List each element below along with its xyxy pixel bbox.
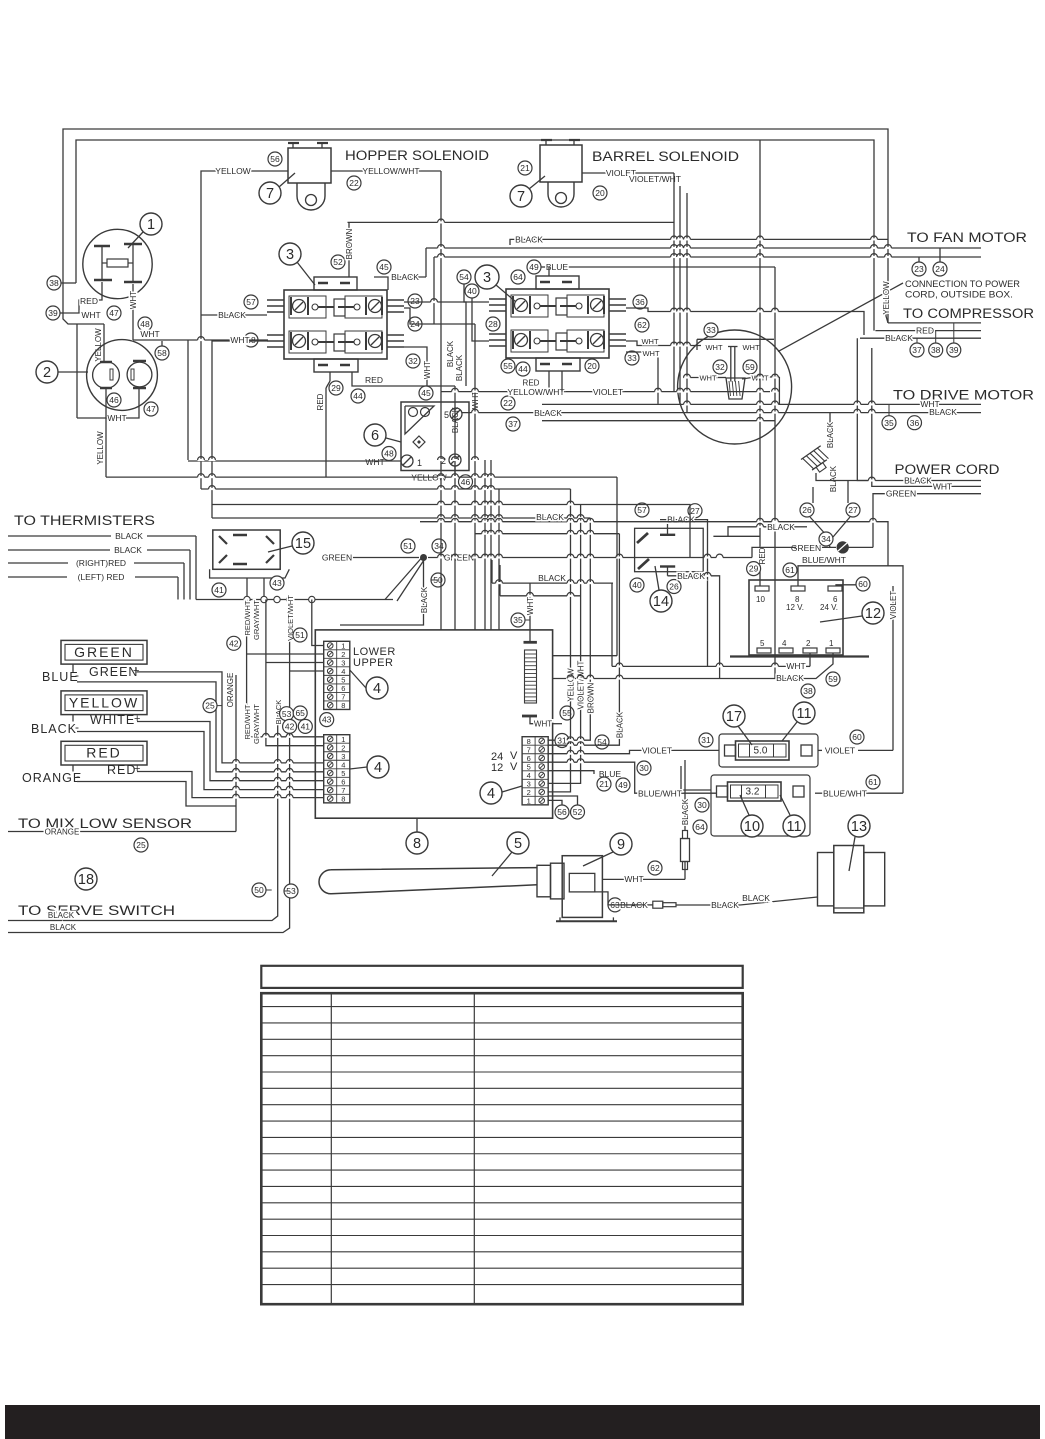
wires thermistor to junction (246, 578, 248, 600)
contactor K2 pin (489, 298, 506, 300)
motor base (560, 917, 613, 921)
svg-text:WHT: WHT (642, 349, 659, 358)
callout 11 F1 (793, 702, 815, 724)
circle 42 col (227, 636, 241, 650)
svg-text:44: 44 (518, 364, 528, 374)
wire wht P2 bottom (77, 389, 139, 418)
callout 3 K2 (475, 265, 499, 289)
svg-text:GREEN: GREEN (886, 489, 916, 499)
svg-text:48: 48 (140, 319, 150, 329)
callout 15 (292, 532, 314, 554)
callout 18 (75, 868, 97, 890)
plug P1 pins (94, 245, 110, 248)
hopper solenoid plunger (297, 183, 325, 210)
wire black K1 right (374, 277, 388, 290)
svg-text:6: 6 (371, 428, 379, 444)
wire top long horizontal y222 (348, 221, 675, 223)
wire lower bus under mixer (542, 420, 775, 422)
svg-text:2: 2 (806, 639, 811, 648)
wire compressor line1 (888, 322, 981, 324)
svg-text:BLACK: BLACK (31, 722, 77, 736)
svg-text:BLACK: BLACK (218, 310, 246, 320)
circle 22 K2 (501, 396, 515, 410)
svg-text:34: 34 (821, 534, 831, 544)
wire gray/wht col (266, 600, 324, 746)
wire wht to K1 (212, 340, 267, 342)
callout 1 (140, 213, 162, 235)
svg-text:RED: RED (758, 547, 767, 564)
svg-text:64: 64 (513, 272, 523, 282)
indicator lamp GREEN (61, 640, 147, 664)
circle 57 sw (635, 503, 649, 517)
circle 37 comp (910, 343, 924, 357)
svg-text:60: 60 (858, 579, 868, 589)
ground screw (837, 542, 848, 553)
circle 47 P1 (107, 306, 121, 320)
wire yellow/wht from hopper (331, 170, 366, 172)
svg-text:65: 65 (295, 708, 305, 718)
svg-text:BLACK: BLACK (455, 354, 464, 381)
component 6 diamond (413, 436, 425, 448)
svg-text:42: 42 (285, 721, 295, 731)
svg-text:RED: RED (107, 763, 136, 777)
fuse box outline 2 (681, 766, 711, 790)
wire fan motor bus 1 (426, 247, 981, 249)
callout 17 (723, 705, 745, 727)
circle 59 mixer (743, 360, 757, 374)
callout 12 (862, 602, 884, 624)
wire K2 out wht 1 (626, 341, 701, 346)
svg-text:VIOLET: VIOLET (889, 591, 898, 620)
circle 44 K2 (516, 362, 530, 376)
svg-text:BLACK: BLACK (885, 333, 913, 343)
svg-text:38: 38 (49, 278, 59, 288)
wire black from junction (340, 558, 424, 626)
circle 56 (268, 152, 282, 166)
terminal strip TS1 (324, 641, 350, 709)
wire compressor red (875, 330, 981, 332)
circle 50 g (431, 573, 445, 587)
svg-text:8: 8 (413, 836, 421, 852)
wire v441b (440, 392, 442, 630)
svg-text:32: 32 (408, 356, 418, 366)
svg-text:BLACK: BLACK (677, 571, 705, 581)
wire black serve col (8, 700, 278, 921)
strain relief power cord (829, 413, 831, 449)
circle 27 cord (846, 503, 860, 517)
circle 29 (329, 381, 343, 395)
wire blue K2 (541, 266, 548, 268)
svg-text:4: 4 (782, 639, 787, 648)
wire red coil K1 (329, 372, 331, 381)
svg-text:47: 47 (109, 308, 119, 318)
svg-text:30: 30 (697, 800, 707, 810)
circle 47 P2 (144, 402, 158, 416)
circle 26 cord (800, 503, 814, 517)
svg-text:38: 38 (803, 686, 813, 696)
callout 5 (507, 832, 529, 854)
svg-text:TO COMPRESSOR: TO COMPRESSOR (903, 306, 1034, 321)
wire red P1 (63, 282, 102, 313)
svg-text:24: 24 (935, 264, 945, 274)
circle 23 fan (912, 262, 926, 276)
svg-text:22: 22 (503, 398, 513, 408)
wire bus y533 (475, 533, 619, 535)
circle 36 drive (908, 416, 922, 430)
circle 58 (244, 333, 258, 347)
svg-text:53: 53 (282, 709, 292, 719)
junction bullet (309, 596, 315, 602)
callout 2 (36, 361, 58, 383)
wire v426 (425, 248, 427, 277)
svg-text:36: 36 (910, 418, 920, 428)
wire orange mix low (8, 831, 45, 833)
contactor K2 pole 1 (511, 295, 548, 317)
wire green ground (795, 546, 836, 548)
parts table (261, 993, 742, 1304)
wire y596 (499, 565, 501, 596)
barrel solenoid coil body (540, 145, 582, 182)
svg-text:VIOLET: VIOLET (642, 745, 672, 755)
circle 53 cl (280, 707, 294, 721)
svg-text:61: 61 (785, 565, 795, 575)
table row line (261, 1087, 742, 1089)
heater resistor on board (524, 641, 537, 644)
svg-text:WHT: WHT (526, 597, 535, 615)
circle 35 res (511, 613, 525, 627)
wire black to buzzer (676, 904, 740, 906)
callout 7 barrel (510, 185, 532, 207)
wire v441 (440, 171, 442, 392)
svg-text:GRAY/WHT: GRAY/WHT (252, 704, 261, 744)
table row line (261, 1104, 742, 1106)
svg-text:TO SERVE SWITCH: TO SERVE SWITCH (18, 903, 175, 918)
svg-text:BLACK: BLACK (929, 407, 957, 417)
svg-text:TO FAN MOTOR: TO FAN MOTOR (907, 230, 1027, 245)
wire blue- lead (77, 682, 324, 772)
circle 32 (406, 354, 420, 368)
callout 11 F2 (783, 815, 805, 837)
svg-text:58: 58 (157, 348, 167, 358)
svg-text:60: 60 (852, 732, 862, 742)
svg-text:37: 37 (508, 419, 518, 429)
svg-text:59: 59 (745, 362, 755, 372)
wire blue ts3 (547, 771, 594, 774)
wire green+ lead (72, 664, 74, 672)
circle 39 (46, 306, 60, 320)
contactor K1 pin (267, 311, 284, 313)
svg-text:46: 46 (109, 395, 119, 405)
svg-text:VIOLET: VIOLET (825, 746, 855, 756)
svg-text:5.0: 5.0 (754, 746, 768, 757)
plug P2 body (87, 340, 158, 411)
svg-text:5: 5 (444, 410, 449, 420)
svg-text:25: 25 (136, 840, 146, 850)
wire black top right (510, 239, 888, 245)
svg-text:52: 52 (573, 807, 583, 817)
circle 42 cl (283, 719, 297, 733)
circle 21 (518, 161, 532, 175)
svg-text:23: 23 (914, 264, 924, 274)
svg-text:BLACK: BLACK (826, 421, 835, 448)
svg-text:VIOLET/WHT: VIOLET/WHT (577, 660, 586, 709)
component 6 board (401, 402, 469, 471)
callout 7 hopper (259, 182, 281, 204)
svg-text:BLACK: BLACK (50, 923, 77, 932)
svg-text:+: + (133, 665, 139, 677)
svg-text:45: 45 (421, 388, 431, 398)
hopper solenoid coil body (288, 148, 331, 183)
table columns (330, 993, 332, 1304)
svg-text:WHT: WHT (107, 413, 126, 423)
wire violet from F1 (818, 749, 822, 751)
wire bus y489 (201, 488, 571, 490)
thermistor block body (213, 530, 280, 569)
wire blue/wht from F2 (815, 792, 824, 794)
wire right vertical to power wht (872, 348, 877, 486)
wire v612 (611, 583, 613, 666)
svg-text:WHT: WHT (534, 720, 552, 729)
callout 4 TS3 (480, 782, 502, 804)
svg-text:BLACK: BLACK (767, 522, 795, 532)
wire K2 out to compressor (626, 308, 864, 335)
svg-text:BLACK: BLACK (391, 272, 419, 282)
circle 61 t (783, 563, 797, 577)
svg-text:48: 48 (384, 449, 394, 459)
wire v617 (616, 477, 618, 656)
svg-text:39: 39 (949, 345, 959, 355)
table row line (261, 1202, 742, 1204)
circle 25 mix (134, 838, 148, 852)
svg-text:-: - (75, 668, 79, 682)
circle 60 F1 (850, 730, 864, 744)
wire orange- lead (77, 782, 236, 807)
junction bus (196, 599, 393, 601)
circle 60 t (856, 577, 870, 591)
component 6 screw 5 (450, 408, 462, 420)
wire right vertical to power black (857, 338, 872, 480)
circle 27 sw (688, 504, 702, 518)
wire second left vertical (211, 340, 213, 518)
wire red+ lead (72, 765, 74, 772)
svg-text:51: 51 (295, 630, 305, 640)
wire yellow col (547, 489, 570, 792)
wire red to transformer (759, 140, 761, 586)
svg-text:15: 15 (295, 536, 311, 552)
circle 36 (633, 295, 647, 309)
svg-text:3: 3 (483, 270, 491, 286)
circle 54 (457, 270, 471, 284)
circle 43 th (270, 576, 284, 590)
svg-text:12: 12 (865, 606, 881, 622)
barrel solenoid plunger (548, 182, 574, 207)
wire bus y504 (212, 505, 690, 558)
contactor K2 pin (489, 339, 506, 341)
svg-text:43: 43 (322, 715, 332, 725)
contactor K1 pin (267, 299, 284, 301)
callout 6 (364, 424, 386, 446)
circle 55 b (560, 706, 574, 720)
circle 28 (486, 317, 500, 331)
table row line (261, 1153, 742, 1155)
wire power black inner (728, 527, 768, 537)
circle 45 (377, 260, 391, 274)
callout 4 TS2 (367, 756, 389, 778)
wire hop bumps (438, 221, 445, 223)
svg-text:BLACK: BLACK (534, 408, 562, 418)
svg-text:+: + (134, 713, 140, 725)
circle 46 comp6 (459, 475, 473, 489)
junction bullet (244, 596, 250, 602)
circle 50 serve (252, 883, 266, 897)
inline connector 63 (653, 901, 663, 908)
svg-text:4: 4 (373, 681, 381, 697)
svg-text:BROWN: BROWN (586, 682, 595, 713)
wire black K2 left 2 (472, 298, 489, 341)
svg-text:45: 45 (379, 262, 389, 272)
contactor K1 pole 1 (289, 296, 326, 318)
svg-text:(LEFT) RED: (LEFT) RED (78, 572, 125, 582)
svg-text:33: 33 (706, 325, 716, 335)
circle 61 F2 (866, 775, 880, 789)
circle 25 lamp (203, 699, 217, 713)
svg-text:62: 62 (637, 320, 647, 330)
svg-text:39: 39 (48, 308, 58, 318)
svg-text:V: V (510, 761, 518, 773)
circle 49 (527, 260, 541, 274)
svg-text:RED: RED (916, 326, 934, 336)
component 14 box (635, 528, 704, 571)
circle 59 t (826, 672, 840, 686)
junction bullet (274, 596, 280, 602)
contactor K1 pin (267, 334, 284, 336)
wire black from trafo (553, 653, 833, 679)
wire orange col (235, 675, 237, 832)
callout 13 (848, 815, 870, 837)
wire bus black y521 (420, 522, 888, 566)
svg-text:61: 61 (868, 777, 878, 787)
svg-text:RED: RED (86, 745, 122, 761)
table row line (261, 1038, 742, 1040)
svg-text:RED: RED (365, 375, 383, 385)
wire brown col (547, 518, 590, 740)
svg-text:7: 7 (266, 186, 274, 202)
wire corner left (63, 313, 104, 324)
svg-text:WHT: WHT (742, 343, 759, 352)
terminal strip TS3 (522, 737, 548, 805)
svg-text:35: 35 (513, 615, 523, 625)
wire red/wht col (247, 600, 324, 737)
svg-text:11: 11 (796, 706, 811, 722)
svg-text:GREEN: GREEN (89, 665, 138, 679)
circle 43 cl (320, 713, 334, 727)
svg-text:CORD, OUTSIDE BOX.: CORD, OUTSIDE BOX. (905, 290, 1013, 300)
svg-text:17: 17 (726, 709, 742, 725)
mixer circle (678, 330, 792, 444)
svg-text:GREEN: GREEN (74, 644, 134, 660)
wire blue drop right (774, 267, 776, 679)
wire trafo pin6 (836, 585, 856, 586)
svg-text:BLACK: BLACK (536, 512, 564, 522)
svg-text:3.2: 3.2 (746, 787, 760, 798)
svg-text:BLACK: BLACK (904, 476, 932, 486)
svg-text:9: 9 (617, 837, 625, 853)
table row line (261, 1071, 742, 1073)
svg-text:UPPER: UPPER (353, 657, 393, 669)
svg-text:41: 41 (301, 721, 311, 731)
svg-text:BLACK: BLACK (115, 531, 143, 541)
svg-text:51: 51 (403, 541, 413, 551)
wire compressor black (860, 337, 981, 339)
fuse F2 body (711, 775, 810, 836)
svg-text:3: 3 (286, 247, 294, 263)
svg-text:HOPPER SOLENOID: HOPPER SOLENOID (345, 148, 489, 163)
circle 45 comp6 (419, 386, 433, 400)
circle 51 g (401, 539, 415, 553)
wire yellow hopper feed vertical (201, 171, 217, 489)
svg-text:WHT: WHT (786, 661, 805, 671)
circle 54 ts3 (595, 735, 609, 749)
svg-text:RED: RED (316, 393, 325, 410)
wire yellow P2 bottom (105, 389, 107, 477)
svg-text:12 V.: 12 V. (786, 603, 804, 612)
svg-text:BLUE: BLUE (42, 670, 79, 684)
wire diagonal to note (778, 283, 903, 352)
svg-text:4: 4 (487, 786, 495, 802)
svg-text:1: 1 (527, 796, 531, 805)
junction bullet (286, 596, 292, 602)
svg-text:(RIGHT)RED: (RIGHT)RED (76, 558, 126, 568)
circle 32 mixer (713, 360, 727, 374)
svg-text:42: 42 (229, 638, 239, 648)
table row line (261, 1136, 742, 1138)
wire bus y460 (188, 460, 401, 462)
wire wht from trafo (809, 653, 811, 666)
contactor K1 body (314, 277, 357, 290)
circle 40 (465, 284, 479, 298)
wire row1 ts1 (312, 600, 324, 646)
contactor K1 pin (267, 346, 284, 348)
svg-text:5: 5 (514, 836, 522, 852)
wire black y583 (491, 560, 493, 583)
svg-text:WHT: WHT (705, 343, 722, 352)
wire power wht (877, 485, 981, 487)
circle 34 ground (819, 532, 833, 546)
svg-text:CONNECTION TO POWER: CONNECTION TO POWER (905, 279, 1021, 289)
svg-text:38: 38 (931, 345, 941, 355)
svg-text:57: 57 (246, 297, 256, 307)
svg-text:40: 40 (467, 286, 477, 296)
svg-text:18: 18 (78, 872, 94, 888)
wire resistor top (529, 583, 531, 642)
svg-text:WHT: WHT (641, 337, 658, 346)
circle 62 (635, 318, 649, 332)
svg-text:BLACK: BLACK (681, 798, 690, 825)
wire v475 (474, 324, 476, 630)
svg-text:49: 49 (618, 780, 628, 790)
svg-text:32: 32 (715, 362, 725, 372)
svg-text:WHITE: WHITE (90, 713, 135, 727)
svg-text:50: 50 (254, 885, 264, 895)
svg-text:BLUE/WHT: BLUE/WHT (638, 789, 682, 799)
circle 52 ts3 (571, 805, 585, 819)
svg-text:52: 52 (333, 257, 343, 267)
svg-text:WHT: WHT (140, 329, 159, 339)
switch blade 2 (638, 559, 649, 569)
circle 37 mid (506, 417, 520, 431)
svg-text:+: + (134, 763, 140, 775)
svg-text:13: 13 (851, 819, 867, 835)
